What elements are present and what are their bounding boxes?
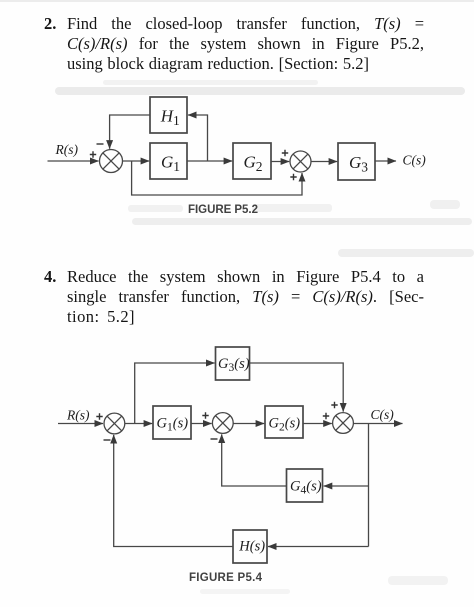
sign + at B input (P5.4)	[202, 412, 208, 418]
wire: G3 to C(s) output	[375, 160, 396, 162]
block G4(s)	[287, 469, 323, 502]
sign + at S1 input (P5.2)	[90, 151, 96, 157]
wire: G1 to G2	[187, 160, 232, 162]
svg-text:H(s): H(s)	[238, 539, 265, 555]
wire: summing junction A to G1(s)	[125, 423, 152, 425]
sign - at B bottom (P5.4)	[211, 438, 218, 440]
svg-text:R(s): R(s)	[66, 407, 90, 422]
problem 4 number	[44, 269, 56, 286]
wire: H(s) output left and up into summing junction A bottom	[114, 435, 233, 547]
wire: G2(s) to summing junction C	[303, 423, 332, 425]
problem 4 line 3	[67, 309, 135, 326]
sign + at C input (P5.4)	[323, 413, 329, 419]
summing junction S2 (P5.2)	[290, 151, 311, 172]
block H(s)	[233, 530, 267, 563]
problem 4 line 2	[67, 289, 424, 306]
wire: takeoff into H(s) input	[268, 546, 369, 548]
sign + at C top (P5.4)	[331, 402, 337, 408]
summing junction A (P5.4)	[104, 413, 125, 434]
svg-text:FIGURE P5.4: FIGURE P5.4	[189, 572, 263, 584]
wire: R(s) input to summing junction 1	[48, 160, 99, 162]
wire: summing junction C to C(s) output	[353, 423, 402, 425]
wire: G1(s) to summing junction B	[191, 423, 212, 425]
summing junction S1 (P5.2)	[100, 150, 123, 173]
block G3(s)	[216, 347, 250, 380]
wire: summing junction 1 to G1	[123, 160, 150, 162]
wire: R(s) input to summing junction A	[58, 423, 103, 425]
wire: G4(s) output left and up into summing junction B bottom	[222, 434, 287, 486]
block G1(s)	[153, 406, 191, 439]
wire: takeoff into G4(s) input	[324, 485, 369, 487]
svg-text:G1(s): G1(s)	[157, 416, 189, 434]
block G3 (P5.2)	[338, 143, 375, 180]
sign - at S1 top (P5.2)	[97, 143, 104, 145]
problem 2 line 1	[67, 16, 424, 33]
wire: takeoff after S1 down and right into summing junction 2 bottom	[132, 161, 302, 195]
svg-text:R(s): R(s)	[55, 142, 79, 157]
wire: G2 to summing junction 2	[271, 161, 289, 163]
problem 2 line 2	[67, 36, 424, 53]
wire: summing junction 2 to G3	[311, 161, 337, 163]
sign - at A bottom (P5.4)	[104, 439, 111, 441]
sign + at S2 bottom (P5.2)	[290, 174, 296, 180]
sign + at S2 input top (P5.2)	[282, 150, 288, 156]
wire: takeoff after A up to G3(s) input	[135, 363, 215, 424]
summing junction B (P5.4)	[212, 413, 233, 434]
svg-text:G3: G3	[349, 153, 368, 175]
svg-text:G4(s): G4(s)	[290, 479, 322, 497]
wire: tap after G1 up to H1 input	[188, 115, 208, 161]
wire: H1 output down into summing junction 1 top	[110, 115, 150, 149]
block G1 (P5.2)	[150, 143, 187, 179]
svg-text:C(s): C(s)	[371, 407, 395, 422]
problem 2 number	[44, 16, 56, 33]
wire: G3(s) output right and down into summing junction C top	[250, 363, 344, 412]
problem 2 line 3	[67, 56, 369, 73]
svg-text:G2: G2	[244, 152, 263, 174]
wire: output takeoff down past G4 level to H level	[368, 424, 370, 547]
svg-text:FIGURE P5.2: FIGURE P5.2	[188, 204, 258, 216]
block G2(s)	[265, 406, 303, 438]
summing junction C (P5.4)	[333, 413, 354, 434]
svg-text:H1: H1	[160, 106, 180, 128]
svg-text:G3(s): G3(s)	[218, 356, 250, 374]
svg-text:G1: G1	[161, 152, 180, 174]
sign + at A input (P5.4)	[96, 413, 102, 419]
svg-text:G2(s): G2(s)	[269, 416, 301, 434]
block H1	[150, 97, 187, 133]
wire: summing junction B to G2(s)	[233, 423, 264, 425]
problem 4 line 1	[67, 269, 424, 286]
svg-text:C(s): C(s)	[403, 152, 427, 167]
block G2 (P5.2)	[233, 143, 271, 179]
